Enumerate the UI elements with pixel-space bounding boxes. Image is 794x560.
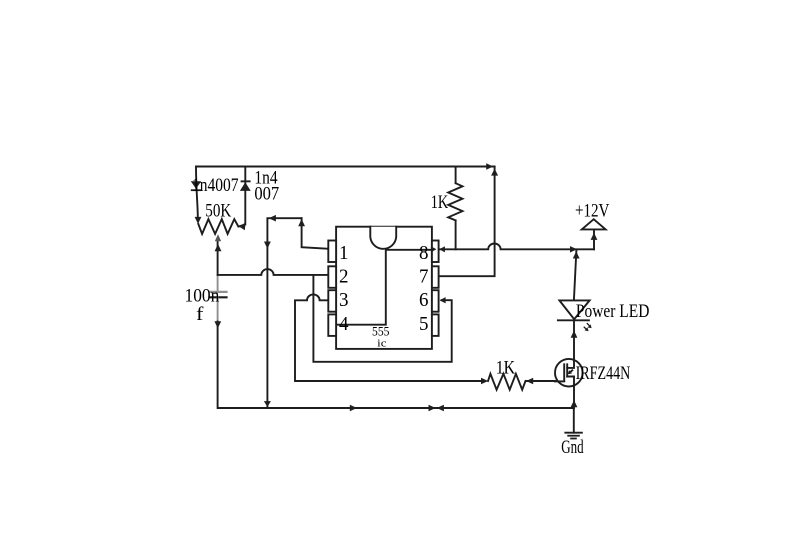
svg-text:1K: 1K xyxy=(431,192,449,213)
svg-text:f: f xyxy=(196,304,204,325)
svg-text:7: 7 xyxy=(419,266,429,287)
svg-text:50K: 50K xyxy=(205,200,231,221)
svg-text:1K: 1K xyxy=(496,357,516,378)
svg-text:ic: ic xyxy=(377,338,386,350)
svg-text:1n4007: 1n4007 xyxy=(192,175,239,196)
svg-text:2: 2 xyxy=(339,266,349,287)
svg-text:6: 6 xyxy=(419,290,429,311)
svg-text:8: 8 xyxy=(419,243,429,264)
svg-text:Power LED: Power LED xyxy=(576,301,650,322)
svg-text:007: 007 xyxy=(254,184,279,205)
svg-text:IRFZ44N: IRFZ44N xyxy=(576,363,631,384)
svg-text:555: 555 xyxy=(372,325,390,339)
svg-text:3: 3 xyxy=(339,290,349,311)
svg-text:+12V: +12V xyxy=(575,201,610,222)
svg-text:Gnd: Gnd xyxy=(561,437,584,458)
svg-text:1: 1 xyxy=(339,243,349,264)
svg-text:4: 4 xyxy=(339,314,349,335)
svg-text:5: 5 xyxy=(419,314,429,335)
